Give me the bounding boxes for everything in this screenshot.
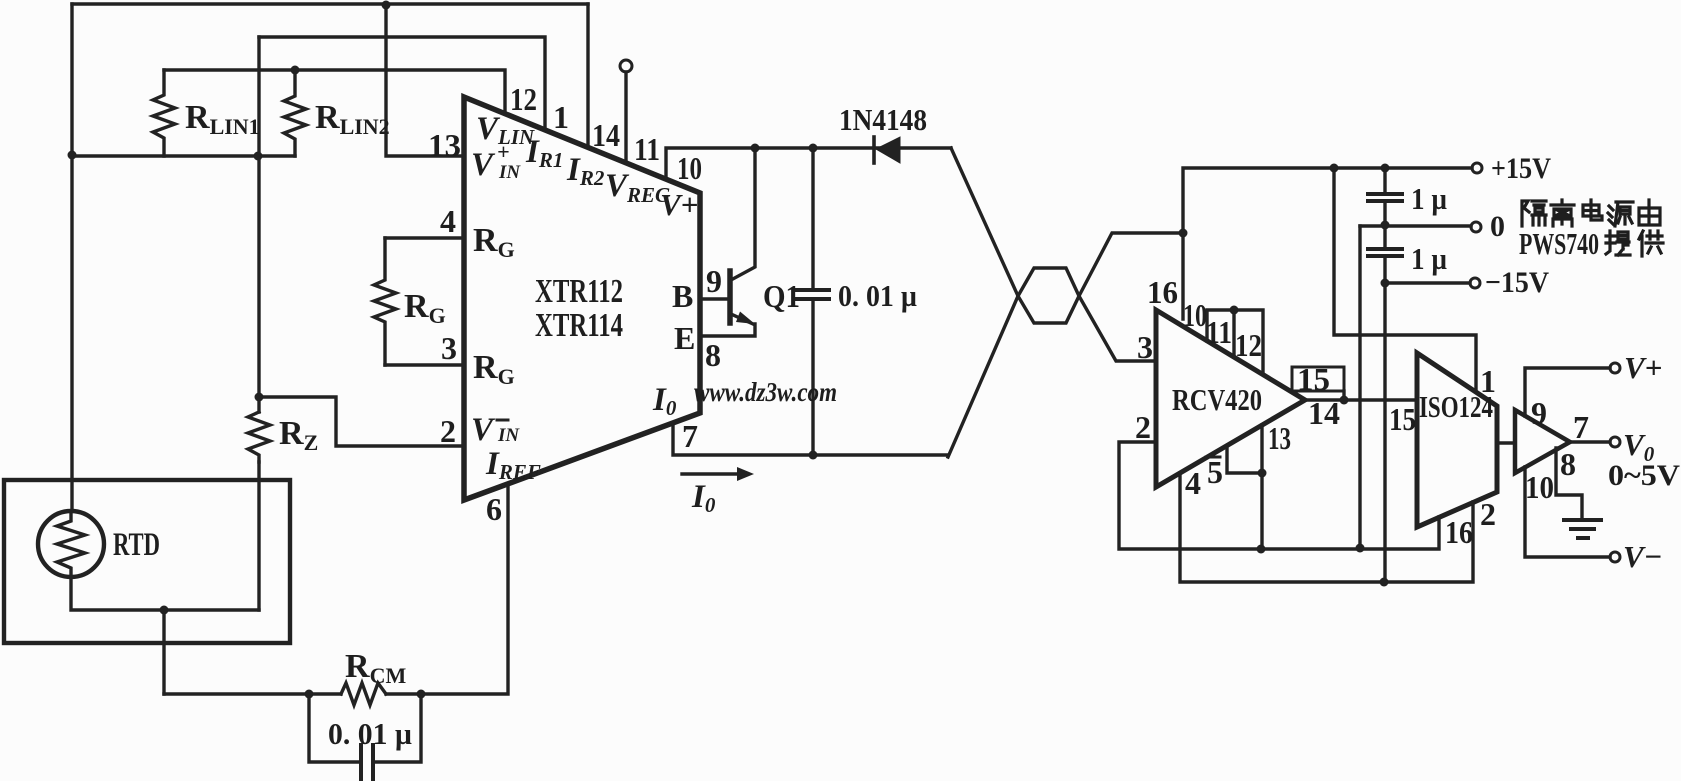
junction dots — [382, 1, 391, 10]
svg-text:+: + — [497, 139, 510, 164]
svg-text:2: 2 — [1135, 409, 1151, 445]
capacitor 0.01u plates — [797, 290, 829, 299]
capacitor 0.01u box right — [373, 694, 421, 762]
svg-text:16: 16 — [1147, 274, 1178, 310]
svg-text:2: 2 — [1480, 496, 1496, 532]
wire ISO124 output — [1497, 441, 1515, 444]
svg-text:Q1: Q1 — [763, 278, 800, 314]
wire RCV420 pin13 vertical — [1260, 425, 1263, 549]
svg-text:E: E — [674, 320, 695, 356]
transistor Q1 base wire — [701, 297, 729, 300]
wire x164 drop — [162, 610, 165, 694]
svg-text:RG: RG — [473, 349, 515, 389]
svg-text:RLIN2: RLIN2 — [315, 99, 390, 139]
capacitor 0.01u box left — [309, 694, 361, 762]
wire crossover A1 — [951, 148, 1018, 296]
capacitor 1u lower plates — [1368, 249, 1402, 256]
svg-text:14: 14 — [592, 117, 620, 153]
wire RCV420 pin16 vertical and +15V rail — [1183, 168, 1472, 319]
svg-text:XTR112: XTR112 — [535, 273, 623, 310]
RTD internal zigzag — [57, 511, 85, 577]
capacitor 0.01u leads — [811, 148, 814, 455]
svg-text:RG: RG — [473, 222, 515, 262]
transistor Q1 base bar — [727, 271, 733, 323]
wire -15V terminal — [1385, 281, 1470, 284]
wire RCV420 output to ISO124 pin15 — [1305, 398, 1417, 401]
svg-text:1N4148: 1N4148 — [839, 102, 927, 137]
RTD circle — [38, 511, 104, 577]
hanzi dian (electric) — [1583, 200, 1602, 220]
transistor Q1 emitter — [701, 314, 755, 336]
wire -15V net vertical — [1383, 283, 1386, 582]
resistor RG external — [374, 238, 396, 365]
resistor RCM — [341, 683, 386, 705]
svg-text:14: 14 — [1308, 395, 1340, 431]
svg-text:10: 10 — [677, 150, 702, 186]
svg-text:RCV420: RCV420 — [1172, 382, 1262, 417]
svg-text:13: 13 — [1268, 420, 1291, 456]
svg-text:3: 3 — [441, 330, 457, 366]
svg-text:0. 01 µ: 0. 01 µ — [328, 716, 412, 751]
arrow I0 line — [682, 472, 737, 475]
resistor RLIN1 — [153, 70, 175, 156]
svg-text:RLIN1: RLIN1 — [185, 99, 260, 139]
wire 15 box riser — [1342, 391, 1345, 400]
svg-text:4: 4 — [440, 203, 456, 239]
RTD box — [4, 480, 290, 643]
wire RCV420 pin4 rail to ISO124 pin2 — [1180, 473, 1473, 582]
wire op-amp output V0 — [1570, 440, 1610, 443]
svg-text:V+: V+ — [1624, 350, 1662, 385]
svg-text:I0: I0 — [691, 479, 716, 517]
RCV pin 5 overline — [1206, 456, 1220, 459]
terminal -15V — [1470, 278, 1480, 288]
svg-text:IR2: IR2 — [566, 152, 605, 190]
hanzi li (leave) — [1551, 200, 1574, 226]
wire pin13 from top rail — [386, 4, 464, 156]
wire pin10 top rail to diode — [666, 148, 951, 179]
wire op-amp pin10 V- — [1525, 467, 1610, 557]
wire y694 right to pin6 — [386, 484, 508, 694]
svg-text:−15V: −15V — [1485, 266, 1549, 299]
capacitor 1u lower leads — [1383, 225, 1386, 283]
wire RTD bottom — [71, 577, 259, 610]
wire op-amp pin9 V+ — [1525, 368, 1610, 416]
capacitor 0.01u plates — [361, 745, 373, 781]
svg-text:6: 6 — [486, 491, 502, 527]
wire RCV420 pins 10 11 12 loop — [1207, 310, 1263, 374]
wire pin3 — [385, 363, 464, 366]
resistor RZ — [248, 412, 270, 462]
wire RCV420 pin2 common rail to ISO124 pin16 — [1119, 442, 1439, 549]
svg-text:ISO124: ISO124 — [1419, 389, 1493, 424]
hanzi yuan (source) — [1608, 202, 1633, 226]
svg-text:7: 7 — [682, 418, 698, 454]
wire RCV420 pin5 — [1227, 448, 1262, 473]
op-amp U3 XTR outline — [464, 97, 700, 500]
ISO124 outline — [1417, 353, 1497, 527]
hanzi you (from) — [1639, 200, 1660, 225]
svg-text:PWS740: PWS740 — [1519, 226, 1599, 261]
wire pin14 drop — [586, 4, 589, 147]
wire +15V to ISO124 pin1 — [1334, 168, 1476, 390]
wire crossover B1 — [948, 296, 1018, 457]
wire pin7 bottom — [673, 423, 948, 455]
op-amp RCV420 outline — [1156, 310, 1305, 487]
svg-text:V: V — [471, 147, 496, 183]
wire left outer vertical — [70, 4, 73, 511]
svg-text:1 µ: 1 µ — [1411, 241, 1447, 276]
svg-text:10: 10 — [1525, 469, 1554, 505]
wire y156 — [72, 154, 295, 157]
svg-text:8: 8 — [1560, 446, 1576, 482]
svg-text:2: 2 — [440, 413, 456, 449]
svg-text:B: B — [672, 278, 693, 314]
transistor Q1 collector — [731, 148, 755, 280]
svg-text:www.dz3w.com: www.dz3w.com — [694, 377, 837, 407]
wire pin11 — [624, 72, 627, 163]
svg-text:15: 15 — [1297, 361, 1330, 397]
terminal V- — [1610, 552, 1620, 562]
capacitor 1u upper leads — [1383, 168, 1386, 225]
svg-text:12: 12 — [1235, 327, 1262, 363]
svg-text:RCM: RCM — [345, 648, 406, 688]
diode 1N4148 triangle — [876, 137, 900, 163]
terminal pin11 circle — [620, 60, 632, 72]
arrow I0 head — [737, 467, 754, 481]
diode 1N4148 cathode bar — [872, 137, 876, 163]
svg-text:11: 11 — [634, 131, 660, 167]
svg-text:+15V: +15V — [1491, 152, 1551, 185]
wire y70 pin12 — [164, 70, 505, 114]
svg-text:4: 4 — [1185, 465, 1201, 501]
wire 0 net vertical — [1358, 226, 1361, 548]
svg-text:10: 10 — [1183, 297, 1207, 333]
svg-text:IR1: IR1 — [525, 134, 563, 172]
svg-text:RTD: RTD — [113, 527, 160, 563]
hanzi ge (isolate) — [1522, 201, 1546, 226]
terminal V0 — [1610, 437, 1620, 447]
terminal 0 — [1471, 222, 1481, 232]
svg-text:12: 12 — [510, 81, 537, 117]
svg-text:9: 9 — [1531, 395, 1547, 431]
wire y37 to pin1 — [259, 37, 545, 130]
svg-text:13: 13 — [428, 127, 461, 163]
wire top rail — [72, 2, 588, 5]
svg-text:16: 16 — [1445, 514, 1473, 550]
wire pin4 — [385, 236, 464, 239]
crossover hexagon — [1018, 268, 1079, 323]
wire x259 vertical lower — [257, 462, 260, 610]
capacitor 1u upper plates — [1368, 194, 1402, 201]
op-amp output buffer outline — [1515, 410, 1570, 473]
svg-text:15: 15 — [1389, 401, 1416, 437]
svg-text:1 µ: 1 µ — [1411, 181, 1447, 216]
box 15 at RCV420 output — [1292, 367, 1344, 391]
ground — [1564, 520, 1601, 538]
wire pin2 branch — [259, 397, 464, 446]
svg-text:V−: V− — [1623, 539, 1662, 574]
svg-text:I0: I0 — [652, 382, 677, 420]
hanzi ti (provide1) — [1606, 231, 1630, 255]
resistor RLIN2 — [284, 70, 306, 156]
wire y694 left — [164, 692, 341, 695]
svg-text:XTR114: XTR114 — [535, 307, 623, 344]
svg-text:V: V — [471, 412, 496, 448]
transistor Q1 emitter arrow — [736, 312, 755, 325]
terminal V+ — [1610, 363, 1620, 373]
wire crossover A2 to RCV pin16 node — [1079, 233, 1183, 296]
svg-text:11: 11 — [1206, 314, 1232, 350]
svg-text:IN: IN — [497, 425, 520, 446]
wire crossover B2 to RCV pin3 — [1079, 296, 1156, 361]
svg-text:3: 3 — [1137, 329, 1153, 365]
svg-text:1: 1 — [553, 99, 569, 135]
svg-text:8: 8 — [705, 337, 721, 373]
svg-text:IREF: IREF — [485, 446, 541, 484]
svg-text:RZ: RZ — [279, 415, 318, 455]
wire 0 terminal — [1360, 224, 1471, 227]
svg-text:0: 0 — [1490, 210, 1505, 243]
svg-text:IN: IN — [498, 162, 521, 183]
terminal +15V — [1472, 163, 1482, 173]
svg-text:5: 5 — [1207, 454, 1223, 490]
svg-text:RG: RG — [404, 288, 446, 328]
svg-text:0. 01 µ: 0. 01 µ — [838, 278, 917, 313]
svg-text:9: 9 — [706, 263, 722, 299]
svg-text:7: 7 — [1573, 409, 1589, 445]
svg-text:0~5V: 0~5V — [1608, 459, 1680, 492]
wire x259 vertical upper — [257, 37, 260, 412]
hanzi gong (provide2) — [1639, 231, 1663, 256]
svg-text:V+: V+ — [660, 187, 698, 222]
wire op-amp pin8 to ground — [1556, 448, 1582, 518]
